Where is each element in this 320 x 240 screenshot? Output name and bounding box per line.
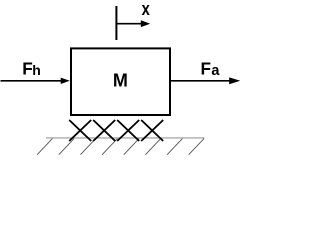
svg-text:x: x bbox=[142, 0, 151, 19]
displacement reference vertical line bbox=[115, 6, 117, 40]
friction cross X2 bbox=[93, 120, 115, 141]
svg-text:a: a bbox=[211, 63, 220, 79]
force arrow Fh (shaft) bbox=[1, 80, 62, 82]
force arrow Fh (head) bbox=[61, 78, 70, 84]
svg-text:F: F bbox=[201, 58, 212, 78]
displacement arrow x (shaft) bbox=[116, 23, 141, 25]
force arrow Fa (head) bbox=[229, 77, 240, 84]
svg-text:M: M bbox=[113, 71, 128, 91]
mass block M bbox=[71, 48, 170, 115]
friction cross X4 bbox=[141, 120, 163, 141]
ground hatching bbox=[37, 139, 204, 155]
svg-text:h: h bbox=[32, 62, 41, 78]
friction cross X3 bbox=[117, 120, 139, 141]
displacement arrow x (head) bbox=[141, 20, 150, 27]
ground line bbox=[46, 137, 205, 139]
friction cross X1 bbox=[69, 120, 91, 141]
force arrow Fa (shaft) bbox=[171, 80, 231, 82]
